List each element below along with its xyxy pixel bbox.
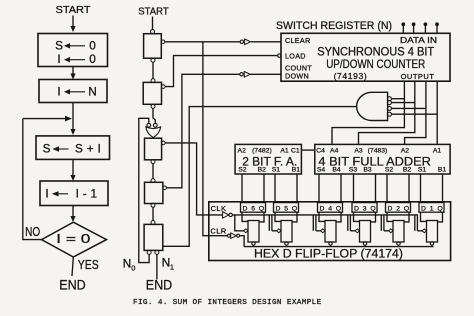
M4 output bubble — [163, 186, 167, 190]
label CLR — [210, 226, 226, 235]
flowchart arrow START to box1 — [70, 16, 75, 33]
label HEX D FLIP-FLOP (74174) — [254, 247, 403, 261]
svg-text:(74193): (74193) — [334, 71, 368, 81]
one-shot M2 — [143, 82, 161, 104]
flip-flop FF3 clear bubble — [363, 242, 366, 247]
node connector below M4 — [151, 203, 155, 207]
svg-text:I: I — [57, 84, 60, 98]
flip-flop FF4 clear bubble — [329, 242, 332, 247]
node connector below M1 — [151, 58, 155, 62]
label 2 BIT F.A. — [242, 154, 297, 168]
adder U2 7482 2-bit box — [235, 144, 301, 174]
wire Q1 from flip-flop — [438, 212, 443, 222]
counter output Q4 vertical wire to adder A4 — [332, 81, 404, 144]
wire Q6 from flip-flop — [259, 212, 264, 222]
svg-text:START: START — [56, 4, 92, 16]
svg-text:(7482): (7482) — [252, 147, 272, 154]
4-bit adder top pin labels — [316, 147, 441, 154]
svg-text:S3: S3 — [349, 166, 358, 173]
adder B pin stub wire from Q2 output — [408, 174, 410, 203]
label OUTPUT — [401, 72, 435, 81]
CLR clear bus under flip-flops — [244, 246, 433, 248]
svg-text:LOAD: LOAD — [285, 51, 306, 60]
label D2Q — [388, 205, 410, 212]
svg-text:Q: Q — [437, 205, 442, 212]
svg-text:A1: A1 — [433, 147, 442, 154]
one-shot M4 — [145, 182, 163, 203]
label D5Q — [276, 205, 298, 212]
svg-text:S + I: S + I — [75, 142, 101, 156]
svg-text:N: N — [88, 84, 97, 98]
flowchart wire diamond-bottom to END — [72, 257, 73, 276]
label (74193) — [334, 71, 368, 81]
svg-text:D: D — [276, 205, 281, 212]
node connector above M5 — [151, 221, 155, 225]
flip-flop cell label box D2Q — [386, 203, 411, 213]
label D4Q — [320, 205, 342, 212]
net NAND output to M5 side input — [163, 107, 357, 247]
data-in pin 2 — [412, 23, 415, 33]
svg-text:Q: Q — [404, 205, 409, 212]
counter output Q2 vertical wire to adder A2 — [405, 81, 426, 144]
data-in pin 4 — [436, 23, 439, 33]
label D6Q — [243, 205, 265, 212]
flip-flop FF5 clock diamond — [277, 229, 281, 233]
counter title text — [317, 44, 434, 70]
wire Q5 from flip-flop — [292, 212, 297, 222]
sequencer START label — [138, 7, 169, 18]
NAND input wire 2 — [391, 102, 415, 104]
M3 output bubble — [162, 141, 166, 145]
NAND gate G2 (zero detect) pointing left — [357, 92, 388, 120]
svg-text:A2: A2 — [401, 147, 410, 154]
figure caption — [133, 299, 322, 307]
NAND input bubble 3 — [387, 106, 391, 110]
counter left pin labels — [285, 36, 312, 80]
NAND input bubble 2 — [387, 101, 391, 105]
svg-text:N: N — [123, 257, 132, 271]
adder B pin stub wire from Q4 output — [340, 174, 342, 203]
svg-text:B2: B2 — [403, 166, 412, 173]
svg-text:S2: S2 — [385, 166, 394, 173]
svg-text:2 BIT F. A.: 2 BIT F. A. — [242, 154, 297, 168]
one-shot M3 — [145, 138, 162, 160]
flowchart NO loop wire diamond-left up to merge — [23, 119, 42, 240]
CLK tap verticals to FF5 — [269, 215, 276, 231]
svg-text:2: 2 — [396, 205, 400, 212]
svg-text:B3: B3 — [363, 166, 372, 173]
flowchart arrow box1 to box2 — [70, 67, 75, 80]
svg-text:I: I — [45, 186, 48, 200]
adder B pin stub wire from Q1 output — [442, 174, 444, 203]
adder S pin stub wire to D6 input — [241, 174, 243, 203]
wire D6 into flip-flop — [242, 212, 248, 221]
wire N0 feedback loop to OR gate — [139, 118, 149, 262]
NAND input wire 3 — [391, 107, 426, 109]
CLK tap verticals to FF3 — [348, 215, 355, 231]
svg-text:6: 6 — [251, 205, 255, 212]
counter output Q3 vertical wire to adder A3 — [359, 81, 415, 144]
wire D5 into flip-flop — [275, 212, 281, 221]
node connector below M3 — [151, 160, 155, 164]
flip-flop FF2 body — [393, 221, 404, 243]
label D3Q — [354, 205, 376, 212]
LOAD input bubble at counter — [278, 54, 281, 57]
svg-text:C1: C1 — [291, 147, 300, 154]
svg-text:5: 5 — [284, 205, 288, 212]
adder S pin stub wire to D5 input — [274, 174, 276, 203]
svg-text:Q: Q — [259, 205, 264, 212]
svg-text:CLR: CLR — [210, 226, 226, 235]
carry wire C1 to C4 between adders — [301, 149, 314, 151]
svg-text:I - 1: I - 1 — [76, 186, 98, 200]
svg-text:A1: A1 — [280, 147, 289, 154]
CLK input buffer with bubble — [223, 212, 233, 218]
OR gate G1 input bubbles — [147, 123, 157, 127]
svg-text:B1: B1 — [292, 166, 301, 173]
flip-flop FF2 clear bubble — [397, 242, 400, 247]
flip-flop FF6 clear bubble — [252, 242, 255, 247]
label CLK — [211, 204, 227, 213]
adder B pin stub wire from Q6 output — [263, 174, 265, 203]
flip-flop cell label box D1Q — [419, 203, 444, 213]
flip-flop FF6 body — [248, 221, 259, 243]
svg-text:Q: Q — [370, 205, 375, 212]
flowchart box4 "I<-I-1" — [40, 181, 108, 206]
sequencer END label — [146, 278, 173, 293]
one-shot M1 — [144, 34, 162, 59]
CLK tap verticals to FF2 — [381, 215, 388, 231]
adder S pin stub wire to D4 input — [318, 174, 320, 203]
adder U3 7483 4-bit box — [315, 144, 450, 174]
flip-flop cell label box D4Q — [318, 203, 343, 213]
flip-flop FF3 body — [360, 221, 371, 243]
2-bit adder top pin labels — [238, 147, 300, 154]
svg-text:CLK: CLK — [211, 204, 227, 213]
label N0 — [123, 257, 136, 273]
svg-text:B2: B2 — [258, 166, 267, 173]
net CLEAR: M1 output to counter CLEAR and CLR rail — [165, 41, 281, 43]
svg-text:I: I — [57, 52, 60, 66]
flowchart label NO — [25, 224, 40, 239]
svg-text:FIG. 4. SUM OF INTEGERS DESIG: FIG. 4. SUM OF INTEGERS DESIGN EXAMPLE — [133, 299, 322, 307]
wire D3 into flip-flop — [354, 212, 360, 221]
svg-text:D: D — [388, 205, 393, 212]
net CLK: M3 output down to flip-flop CLK — [165, 143, 223, 215]
CLK tap to FF6 — [235, 215, 244, 231]
flip-flop FF1 clock diamond — [422, 229, 426, 233]
wire D4 into flip-flop — [319, 212, 325, 221]
CLK tap verticals to FF1 — [415, 215, 422, 231]
wire D2 into flip-flop — [387, 212, 393, 221]
flowchart label END — [59, 278, 86, 293]
label 4 BIT FULL ADDER — [318, 154, 431, 168]
label D1Q — [421, 205, 443, 212]
adder S pin stub wire to D1 input — [420, 174, 422, 203]
hex D flip-flop U4 74174 box — [209, 202, 451, 261]
flowchart arrow box3 to box4 — [70, 159, 75, 181]
svg-text:S: S — [43, 142, 51, 156]
CLR input double inverter symbols — [227, 233, 239, 239]
label N1 — [162, 256, 174, 272]
svg-text:S1: S1 — [272, 166, 281, 173]
svg-text:B1: B1 — [438, 166, 447, 173]
COUNT DOWN line bubble and open arrow symbol — [240, 72, 250, 78]
svg-text:D: D — [320, 205, 325, 212]
NAND input wire 1 — [391, 98, 404, 100]
CLEAR line bubble and open arrow symbol — [240, 39, 250, 45]
svg-text:D: D — [421, 205, 426, 212]
OR gate G1 pointing down — [146, 127, 161, 138]
flip-flop FF2 clock diamond — [389, 229, 393, 233]
svg-text:END: END — [59, 278, 86, 293]
svg-text:S4: S4 — [317, 166, 326, 173]
svg-text:OUTPUT: OUTPUT — [401, 72, 435, 81]
svg-text:0: 0 — [89, 38, 96, 52]
flip-flop FF3 clock diamond — [355, 229, 359, 233]
flip-flop FF5 body — [281, 221, 292, 243]
svg-text:Q: Q — [292, 205, 297, 212]
flip-flop FF1 body — [427, 221, 438, 243]
svg-text:B4: B4 — [332, 166, 341, 173]
flowchart box2 "I<-N" — [39, 80, 107, 103]
svg-text:DOWN: DOWN — [285, 72, 309, 81]
data-in pin 3 — [424, 23, 427, 33]
wire M1 to M2 — [152, 62, 154, 79]
M2 output bubble — [162, 85, 166, 89]
svg-text:A2: A2 — [238, 147, 247, 154]
svg-text:1: 1 — [170, 263, 174, 272]
svg-text:0: 0 — [89, 52, 96, 66]
flowchart START label — [56, 4, 92, 16]
svg-text:S: S — [55, 38, 63, 52]
svg-text:D: D — [354, 205, 359, 212]
flowchart box3 "S<-S+I" — [36, 136, 110, 160]
CLK bus from buffer across cells — [232, 214, 418, 216]
adder B pin stub wire from Q3 output — [375, 174, 377, 203]
adder B pin stub wire from Q5 output — [296, 174, 298, 203]
svg-text:Q: Q — [336, 205, 341, 212]
adder S pin stub wire to D3 input — [353, 174, 355, 203]
node connector above M2 — [151, 79, 155, 83]
wire Q3 from flip-flop — [371, 212, 376, 222]
flip-flop cell label box D3Q — [352, 203, 377, 213]
svg-text:CLEAR: CLEAR — [285, 36, 310, 45]
counter output Q1 vertical wire to adder A1 — [436, 81, 438, 144]
wire Q4 from flip-flop — [336, 212, 341, 222]
wire Q2 from flip-flop — [404, 212, 409, 222]
flip-flop FF4 body — [325, 221, 336, 243]
flip-flop cell label box D6Q — [241, 203, 266, 213]
label SWITCH REGISTER (N) — [276, 20, 392, 32]
wire START to M1 — [152, 17, 154, 30]
flowchart box1 "S<-0 I<-0" — [38, 34, 108, 67]
NAND input wire 4 — [391, 113, 437, 115]
node connector above M1 — [151, 30, 155, 34]
wire N1 to END — [156, 254, 158, 279]
net COUNT DOWN: M4 output up to counter COUNT DOWN — [166, 74, 281, 188]
M5 output pin N1 bubble — [155, 250, 159, 254]
flip-flop FF4 clock diamond — [321, 229, 325, 233]
svg-text:(7483): (7483) — [368, 147, 388, 154]
data-in pin 1 — [402, 23, 405, 33]
flowchart wire box2 to box3 with loop merge arrowhead — [23, 103, 76, 136]
svg-text:END: END — [146, 278, 173, 293]
wire M3 to M4 — [152, 163, 154, 179]
node connector below M2 — [151, 104, 155, 108]
flip-flop FF6 clock diamond — [244, 229, 248, 233]
svg-text:S2: S2 — [238, 166, 247, 173]
CLK tap verticals to FF4 — [313, 215, 320, 231]
counter U1 74193 box — [281, 33, 450, 81]
wire D1 into flip-flop — [421, 212, 427, 221]
wire M2 to OR gate input — [153, 108, 155, 123]
adder S pin stub wire to D2 input — [386, 174, 388, 203]
2-bit adder bottom pin labels — [238, 166, 300, 173]
svg-text:UP/DOWN COUNTER: UP/DOWN COUNTER — [326, 57, 425, 71]
label DATA IN — [400, 36, 437, 45]
svg-text:I = 0: I = 0 — [56, 231, 90, 246]
wire CLR to clear bus — [240, 236, 245, 247]
NAND input bubble 4 — [387, 112, 391, 116]
flowchart arrow box4 to decision diamond — [70, 206, 75, 223]
svg-text:HEX D FLIP-FLOP (74174): HEX D FLIP-FLOP (74174) — [254, 247, 403, 261]
net LOAD: M2 output up to counter LOAD — [165, 56, 278, 87]
flip-flop cell label box D5Q — [274, 203, 299, 213]
svg-text:3: 3 — [363, 205, 367, 212]
node connector above M4 — [151, 179, 155, 183]
svg-text:D: D — [243, 205, 248, 212]
svg-text:SWITCH REGISTER (N): SWITCH REGISTER (N) — [276, 20, 392, 32]
svg-text:4: 4 — [328, 205, 332, 212]
svg-text:1: 1 — [430, 205, 434, 212]
4-bit adder bottom pin labels — [317, 166, 447, 173]
svg-text:A3: A3 — [354, 147, 363, 154]
flip-flop FF5 clear bubble — [285, 242, 288, 247]
NAND input bubble 1 — [387, 97, 391, 101]
svg-text:YES: YES — [78, 257, 99, 272]
flowchart decision diamond "I=0" — [42, 222, 107, 257]
M1 output bubble — [161, 40, 165, 44]
net CLR rail from CLEAR line down to flip-flop CLR — [203, 42, 227, 236]
wire M4 to M5 — [152, 207, 154, 221]
svg-text:C4: C4 — [316, 147, 325, 154]
svg-text:NO: NO — [25, 224, 40, 239]
M5 output pin N0 bubble — [147, 250, 151, 254]
one-shot M5 — [144, 224, 163, 250]
svg-text:0: 0 — [131, 264, 135, 273]
flowchart label YES — [78, 257, 99, 272]
flip-flop FF1 clear bubble — [430, 242, 433, 247]
svg-text:A4: A4 — [330, 147, 339, 154]
svg-text:START: START — [138, 7, 169, 18]
svg-text:S1: S1 — [418, 166, 427, 173]
